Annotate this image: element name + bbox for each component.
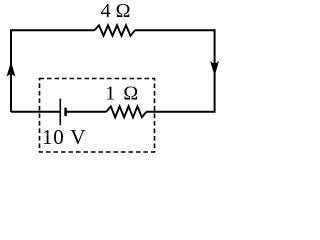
svg-text:10 V: 10 V [42,125,86,149]
svg-text:4 Ω: 4 Ω [101,0,131,22]
current arrow up (left branch) [7,62,16,77]
resistor R1 (4 ohm) zigzag [95,25,136,36]
dashed box around battery and internal resistance [40,79,155,153]
svg-text:1 Ω: 1 Ω [105,83,140,105]
battery B1 long plate (positive) [59,99,61,125]
current arrow down (right branch) [210,61,219,76]
wire: top-right segment and right vertical down to bottom-right [135,30,215,112]
wire: battery positive plate to resistor R2 [66,111,107,113]
resistor R2 (1 ohm) zigzag [106,106,146,117]
wire: left vertical and top-left segment [11,30,95,112]
wire: bottom-left corner to battery long plate [11,111,60,113]
battery B1 short plate (negative) [64,108,67,116]
